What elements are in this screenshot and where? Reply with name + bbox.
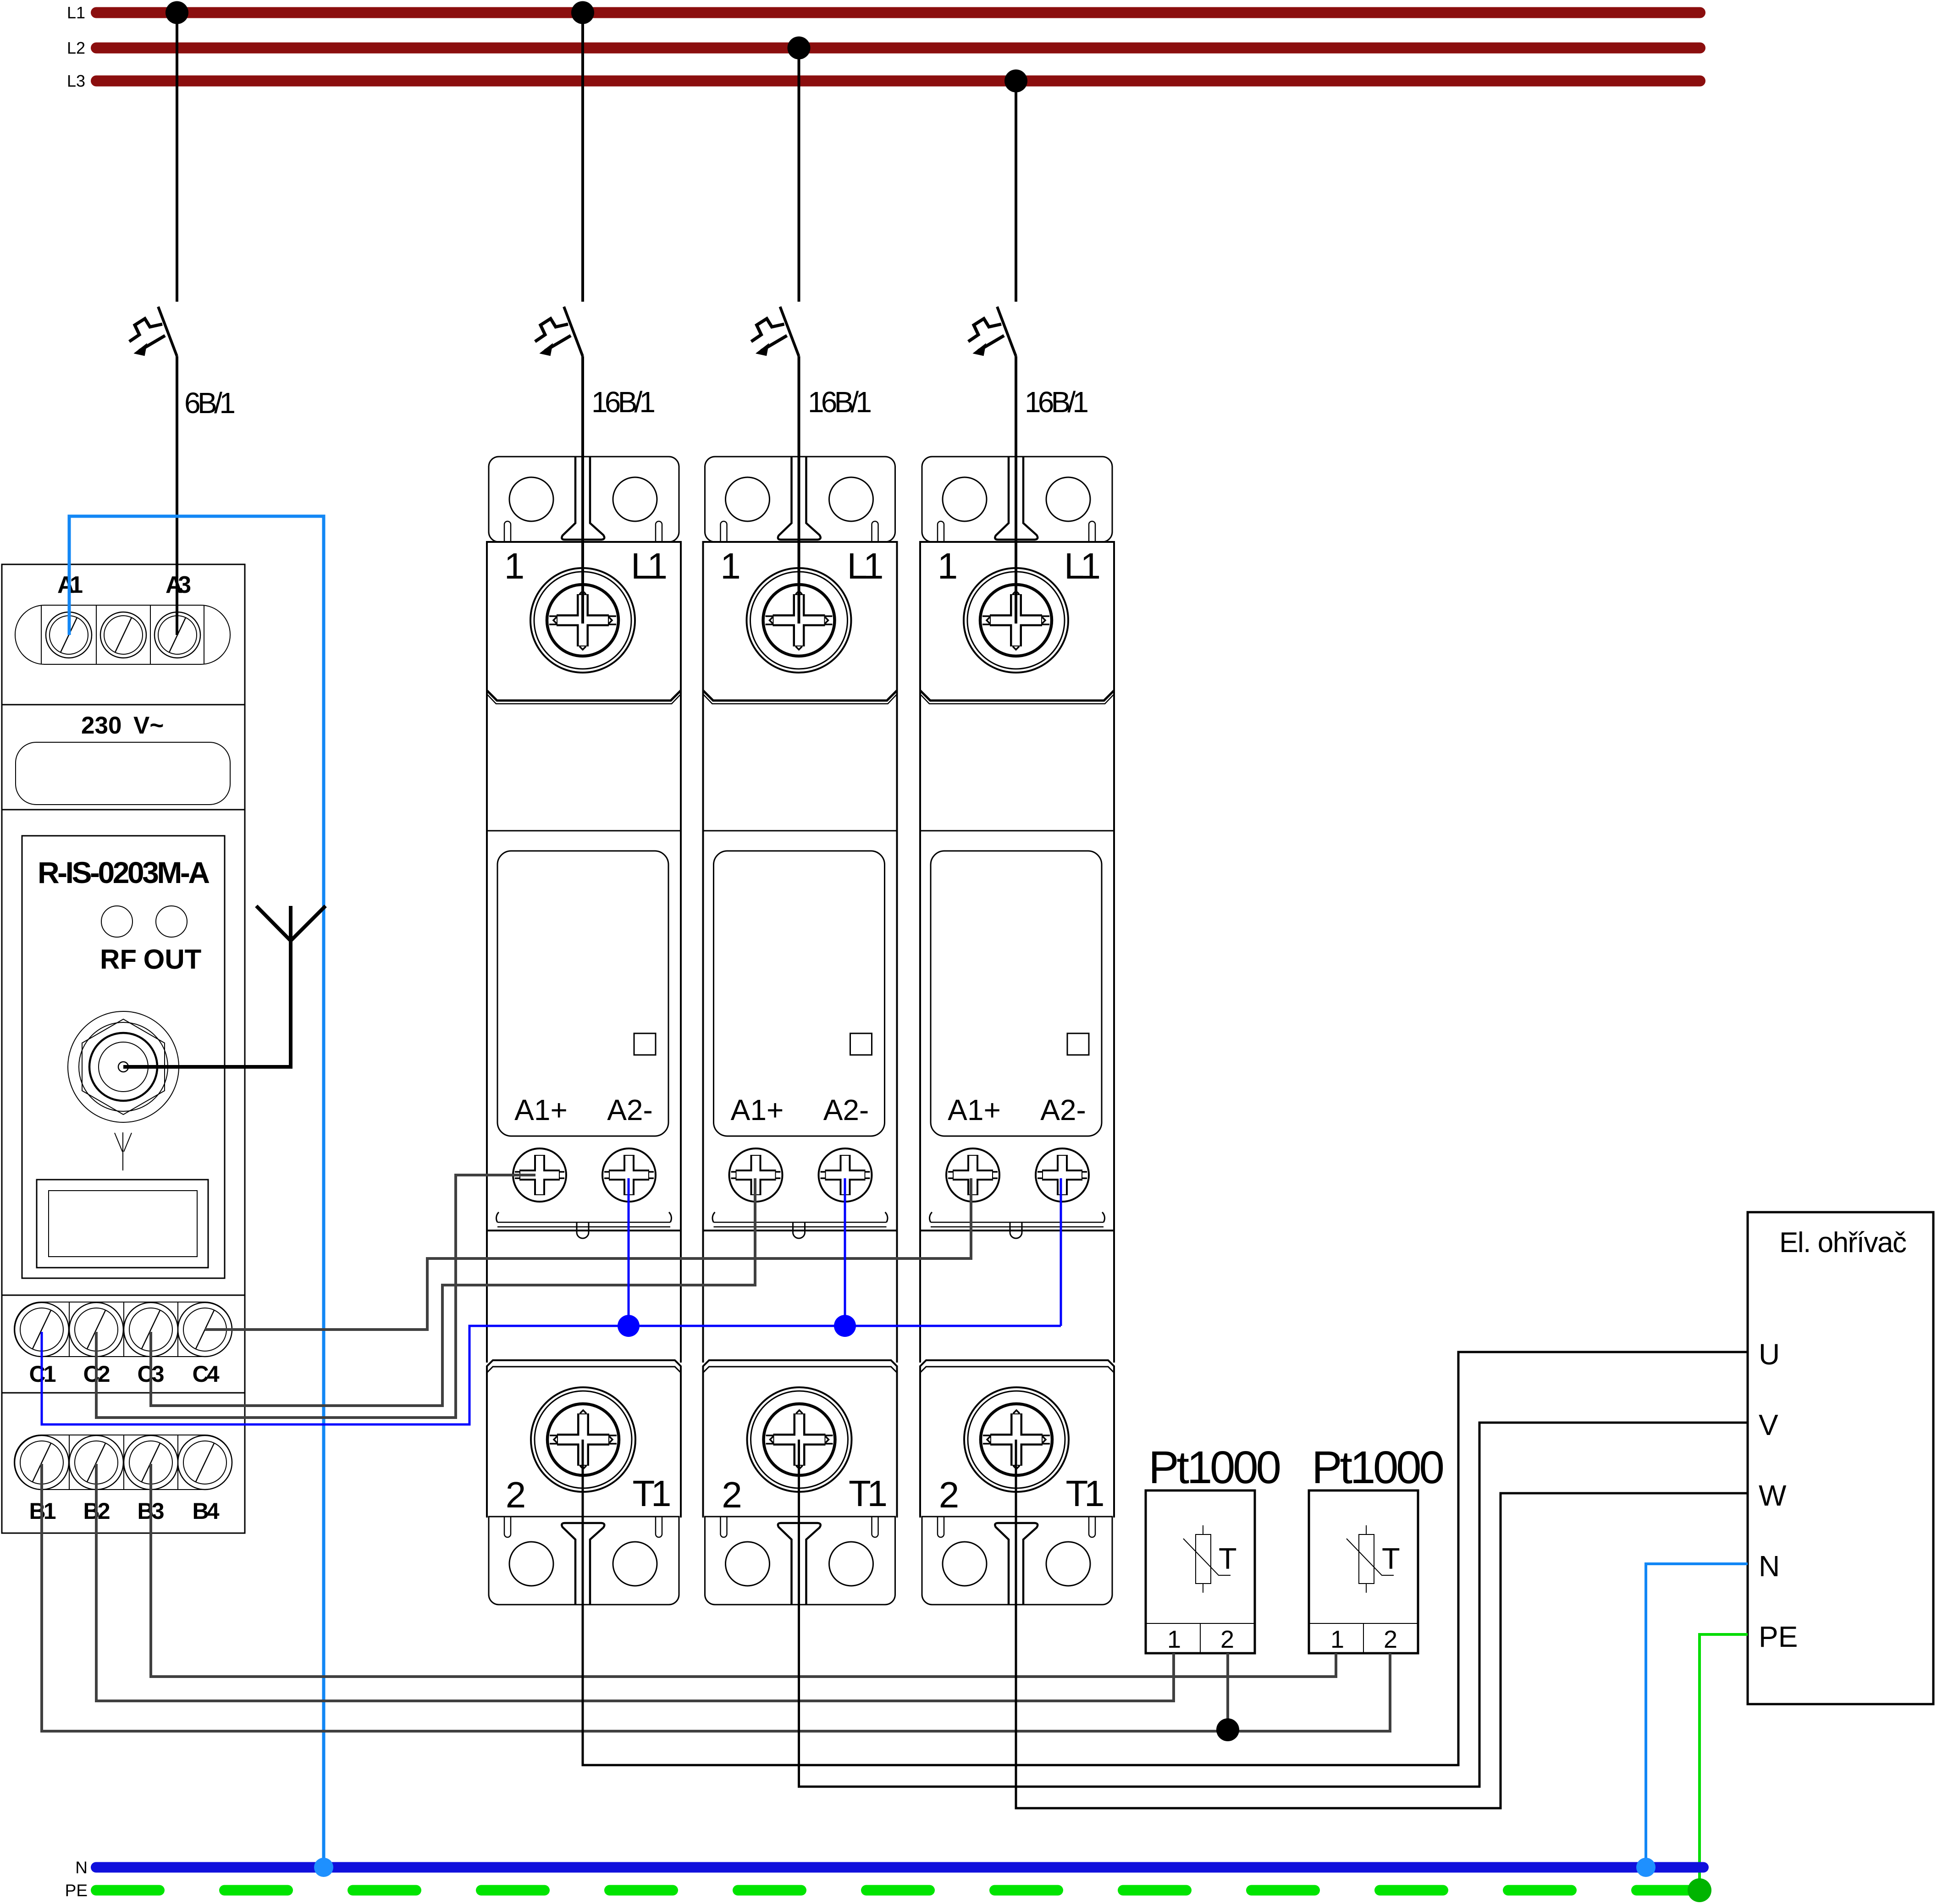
svg-text:16B/1: 16B/1	[1025, 386, 1089, 419]
svg-text:RF: RF	[100, 944, 137, 975]
svg-text:16B/1: 16B/1	[808, 386, 872, 419]
svg-text:6B/1: 6B/1	[184, 386, 236, 419]
svg-text:1: 1	[1167, 1626, 1181, 1653]
svg-text:C4: C4	[193, 1361, 220, 1387]
svg-text:B4: B4	[193, 1498, 220, 1524]
svg-text:W: W	[1759, 1479, 1787, 1512]
svg-text:T: T	[1219, 1542, 1237, 1575]
svg-text:230: 230	[81, 712, 121, 739]
svg-text:El. ohřívač: El. ohřívač	[1779, 1227, 1907, 1258]
svg-text:R-IS-0203M-A: R-IS-0203M-A	[38, 855, 210, 889]
svg-text:U: U	[1759, 1338, 1780, 1371]
svg-text:Pt1000: Pt1000	[1148, 1442, 1281, 1493]
svg-text:OUT: OUT	[143, 944, 202, 975]
svg-text:A3: A3	[166, 572, 191, 598]
svg-text:N: N	[75, 1858, 88, 1877]
svg-text:PE: PE	[1759, 1620, 1798, 1653]
svg-text:L1: L1	[67, 3, 85, 22]
svg-text:L2: L2	[67, 39, 85, 57]
svg-text:N: N	[1759, 1550, 1780, 1583]
svg-text:V~: V~	[133, 712, 164, 739]
svg-text:L3: L3	[67, 72, 85, 90]
svg-text:16B/1: 16B/1	[591, 386, 656, 419]
svg-text:V: V	[1759, 1408, 1778, 1441]
svg-text:PE: PE	[65, 1881, 88, 1900]
svg-text:2: 2	[1220, 1626, 1234, 1653]
